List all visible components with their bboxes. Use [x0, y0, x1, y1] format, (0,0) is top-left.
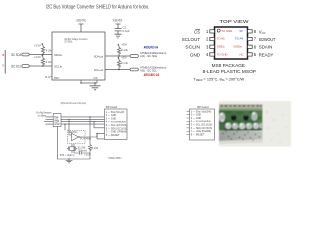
connector J1 box [53, 114, 61, 127]
svg-text:CS: CS [194, 29, 200, 34]
wire stub J1 pin4 [46, 123, 54, 125]
svg-text:8 — /RESET: 8 — /RESET [106, 134, 120, 137]
connector pin P3 (SDAout pill) [130, 55, 138, 58]
svg-text:“ DSD-056 ”: “ DSD-056 ” [107, 156, 123, 160]
wire bus row2 [61, 118, 105, 120]
U2 pin1 indicator circle [217, 29, 220, 32]
bus bracket line [4, 50, 6, 74]
svg-text:TO GND: TO GND [221, 29, 232, 33]
via specks on gray band [222, 131, 260, 141]
green mottling patches [224, 111, 261, 123]
connector pin P2 (SCL pill) [22, 65, 29, 68]
wire SCLout right [105, 69, 130, 71]
svg-text:(32kHz): (32kHz) [78, 149, 87, 152]
wire bus row1 [61, 116, 105, 118]
power flag Vdd(+5V) left [79, 24, 84, 32]
wire drop to osc input [69, 119, 72, 135]
svg-text:I2C Bus Voltage Converter SHIE: I2C Bus Voltage Converter SHIELD for Ard… [46, 5, 150, 11]
wire drop to R5 [89, 117, 91, 145]
wire stub to BP board row8 [97, 133, 105, 139]
J3 pin tick marks [187, 111, 190, 134]
svg-text:READY: READY [259, 52, 274, 57]
svg-text:MS8 PACKAGE: MS8 PACKAGE [212, 63, 245, 68]
component shadows [219, 119, 258, 123]
svg-text:GNDo: GNDo [217, 44, 225, 48]
svg-text:+5V: +5V [121, 55, 126, 59]
resistor R4 pull-up 5V SCLout [117, 57, 120, 70]
svg-text:R 10k: R 10k [46, 48, 52, 52]
svg-text:GND: GND [190, 52, 200, 57]
crystal X1 [67, 146, 77, 150]
op-amp U2 MS8 package outline [215, 27, 248, 59]
connector J2 BP board box [105, 109, 128, 140]
svg-text:BP board: BP board [197, 105, 209, 109]
wire bus row4 [61, 123, 105, 125]
pin 6 box [248, 45, 253, 48]
svg-text:TO A5: TO A5 [217, 37, 225, 41]
svg-text:v: v [2, 64, 4, 68]
connector pin P4 (SCLout pill) [130, 68, 138, 71]
ground symbol main [90, 86, 101, 90]
metal can component right [251, 112, 257, 121]
pin 1 box [210, 30, 215, 33]
resistor R3 pull-up 5V SDAout [117, 44, 120, 56]
wire n.c. to RDY [51, 76, 53, 78]
wire bottom ground rail [58, 127, 91, 160]
svg-text:ARDUINO A4: ARDUINO A4 [144, 45, 159, 49]
svg-text:SDAout: SDAout [94, 54, 104, 58]
svg-text:I2C SDA: I2C SDA [11, 53, 22, 57]
svg-text:FOX-4Mo: FOX-4Mo [80, 137, 91, 140]
pin 4 box [210, 53, 215, 56]
metal blob left edge [219, 112, 225, 122]
capacitor C2 [74, 144, 90, 155]
solder highlights [226, 123, 228, 125]
svg-text:TakiOsc: TakiOsc [69, 131, 79, 134]
svg-text:< 1uF: < 1uF [84, 154, 91, 157]
svg-text:MySimple I2C sensor Test (osc): MySimple I2C sensor Test (osc) [61, 101, 86, 105]
black component capacitor 1 [231, 115, 237, 121]
silkscreen text specks [221, 105, 262, 106]
svg-text:ARDUINO A5: ARDUINO A5 [144, 73, 160, 77]
black component capacitor 2 [243, 115, 249, 121]
wire drop row3 to BP board [94, 122, 105, 128]
svg-text:SCLin: SCLin [54, 64, 63, 68]
svg-text:a: a [2, 53, 4, 57]
svg-text:+3.3V: +3.3V [34, 43, 41, 47]
power flag Vdd(+5V) right [116, 24, 121, 28]
svg-text:SDWOUT: SDWOUT [259, 37, 276, 42]
svg-text:SDAIN: SDAIN [259, 45, 273, 50]
svg-text:8 — /RESET: 8 — /RESET [191, 133, 205, 136]
bright green silkscreen line [219, 108, 263, 110]
svg-text:or xBee: or xBee [38, 114, 47, 118]
svg-text:5V: 5V [240, 29, 244, 33]
J3 pin list [191, 110, 213, 136]
svg-text:VCC: VCC [259, 29, 266, 35]
wire crystal to osc [71, 144, 73, 153]
svg-text:5V0 < (3µF<): 5V0 < (3µF<) [60, 154, 75, 157]
svg-text:GNDin: GNDin [234, 44, 243, 48]
wire bus row3 [61, 121, 105, 123]
svg-text:R 1.0k: R 1.0k [121, 48, 128, 52]
ground under C1 [115, 34, 122, 38]
svg-text:BP board: BP board [106, 105, 118, 109]
solder joint balls [225, 123, 231, 130]
svg-text:NC: NC [240, 52, 244, 56]
J2 pin list [106, 111, 128, 137]
connector J3 BP board legend box [190, 109, 215, 140]
svg-text:TOP VIEW: TOP VIEW [220, 19, 250, 25]
wire osc output [80, 133, 104, 137]
oscillator module dashed box [68, 130, 86, 144]
ground symbol bottom [66, 159, 73, 163]
wire SCL left [29, 65, 52, 67]
solder joint shadow [224, 128, 261, 130]
svg-text:0.1µF: 0.1µF [123, 29, 130, 33]
pin 8 box [248, 30, 253, 33]
pin 3 box [210, 45, 215, 48]
svg-text:R 10k: R 10k [92, 147, 99, 150]
svg-text:GND: GND [54, 123, 60, 126]
pin 5 box [248, 53, 253, 56]
wire stub J1 pin1 [46, 116, 54, 118]
op-amp U1 I2C bus voltage converter LTC4301L box [52, 32, 105, 80]
svg-text:SCLIN: SCLIN [185, 45, 200, 50]
resistor R2 pull-up 3.3V SCL [41, 55, 44, 66]
wire GND pin to ground [81, 80, 97, 86]
wire drop to osc box top [64, 124, 66, 130]
svg-text:8-LEAD PLASTIC MSOP: 8-LEAD PLASTIC MSOP [203, 69, 256, 74]
svg-text:SCLout: SCLout [94, 68, 104, 72]
svg-text:Vdd(+5V): Vdd(+5V) [113, 19, 123, 23]
pin 7 box [248, 37, 253, 40]
wire stub J1 pin2 [46, 118, 54, 120]
pin 2 box [210, 37, 215, 40]
faint specks in pale right portion [266, 111, 287, 143]
pale fade under gray band [219, 139, 263, 144]
connector pin P1 (SDA pill) [22, 53, 29, 56]
svg-text:SDAin: SDAin [54, 53, 63, 57]
green PCB area [219, 110, 263, 130]
svg-text:I2C SCL: I2C SCL [11, 64, 21, 68]
svg-text:TO GND: TO GND [217, 52, 228, 56]
op-amp U3 oscillator triangle [72, 133, 79, 141]
wire SDAout right [105, 55, 130, 57]
wire stub J1 pin3 [44, 121, 53, 123]
capacitor C1 [115, 29, 122, 35]
svg-text:Vdd(+5V): Vdd(+5V) [76, 19, 86, 23]
gray speckled solder band [219, 130, 263, 141]
svg-text:N.C.: N.C. [45, 75, 51, 79]
svg-text:SCLOUT: SCLOUT [182, 37, 201, 42]
silkscreen band [219, 104, 263, 108]
svg-text:A(4) - I2C SDa: A(4) - I2C SDa [140, 54, 157, 58]
svg-text:CS: CS [93, 76, 97, 80]
resistor R1 pull-up 3.3V SDA [41, 43, 44, 54]
svg-text:TO A4: TO A4 [235, 37, 243, 41]
svg-text:RDY: RDY [54, 76, 60, 80]
resistor R5 [89, 145, 92, 159]
svg-text:+3.3V: +3.3V [34, 55, 41, 59]
svg-text:LTC4301L: LTC4301L [64, 39, 73, 43]
wire SDA left [29, 54, 52, 56]
svg-text:+5V: +5V [121, 42, 126, 46]
photo pale margin [219, 101, 291, 147]
svg-text:R 1.0k: R 1.0k [121, 61, 128, 65]
svg-text:R 10k: R 10k [46, 60, 52, 64]
